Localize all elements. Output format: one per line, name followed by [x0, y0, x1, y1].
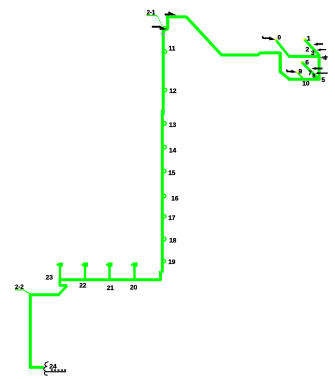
leader arrow for node 7 — [311, 67, 315, 70]
svg-text:12: 12 — [169, 88, 177, 95]
leader line for label 2-2 — [15, 289, 23, 291]
wire trunk lower offset — [159, 271, 162, 281]
wire left vertical down — [29, 293, 32, 368]
gray tick marks below junction — [161, 33, 163, 34]
svg-text:11: 11 — [169, 46, 176, 53]
node circle at trunk top junction — [163, 27, 166, 30]
wire loop bottom horizontal — [288, 78, 320, 81]
svg-text:8: 8 — [312, 73, 315, 79]
leader arrow for node 3 — [317, 48, 321, 51]
leader arrow for node 4 — [320, 56, 323, 59]
svg-text:14: 14 — [169, 147, 177, 154]
tiny annotation text under node 24 — [51, 369, 53, 371]
svg-text:2-1: 2-1 — [147, 10, 156, 16]
svg-text:15: 15 — [168, 170, 176, 177]
wire elbow vertical at x280 — [279, 52, 282, 72]
svg-text:0: 0 — [277, 35, 281, 42]
wire branch to node 0 — [276, 40, 289, 56]
svg-text:23: 23 — [46, 275, 54, 282]
wire top diagonal to main run — [186, 17, 221, 55]
wire bottom horizontal to node 24 — [29, 366, 44, 369]
wire trunk vertical upper — [166, 16, 169, 30]
flow arrow on trunk top — [168, 11, 176, 15]
node 12 circle — [163, 88, 166, 91]
svg-text:10: 10 — [302, 80, 310, 87]
leader arrow to node 9 — [286, 70, 288, 72]
svg-text:2: 2 — [306, 46, 310, 53]
leader arrow for node 8 — [315, 72, 319, 75]
leader line for label 2-1 — [146, 15, 157, 17]
node 1 point — [303, 38, 305, 40]
svg-text:2-2: 2-2 — [15, 285, 24, 291]
svg-text:6: 6 — [305, 59, 309, 66]
node 18 circle — [163, 237, 166, 240]
svg-text:19: 19 — [168, 259, 176, 266]
svg-text:5: 5 — [321, 77, 325, 84]
wire trunk vertical main — [161, 30, 165, 273]
node 0 point — [275, 39, 277, 41]
wire branch to node 9 — [297, 72, 303, 78]
svg-text:21: 21 — [107, 285, 115, 292]
wire trunk top horizontal — [166, 15, 187, 18]
svg-text:22: 22 — [79, 282, 87, 289]
wire branch to node 1 — [305, 40, 320, 56]
node 19 circle — [162, 260, 165, 263]
wire loop right vertical — [318, 56, 321, 81]
node 15 circle — [163, 169, 166, 172]
flow arrow at trunk junction — [152, 26, 161, 28]
node 14 circle — [163, 146, 166, 149]
svg-text:1: 1 — [307, 35, 311, 42]
hydrant stub node 20 — [133, 264, 135, 282]
svg-text:20: 20 — [130, 284, 138, 291]
wire trunk jog — [163, 29, 167, 31]
leader arrow to node 0 — [262, 36, 264, 38]
wire loop top horizontal — [288, 55, 320, 58]
node 6 point — [301, 61, 303, 63]
wire branch to node 6 — [302, 62, 318, 79]
node 9 point — [296, 71, 298, 73]
wire stub1 below main line — [58, 278, 61, 286]
hydrant stub node 23 — [59, 264, 61, 282]
node 16 circle — [163, 194, 166, 197]
wire stub1 foot right — [59, 284, 67, 287]
svg-text:18: 18 — [169, 238, 177, 245]
node 13 circle — [163, 122, 166, 125]
node 17 circle — [163, 215, 166, 218]
svg-text:3: 3 — [311, 50, 315, 57]
svg-text:13: 13 — [169, 122, 177, 129]
leader line under node 24 — [46, 371, 66, 372]
hydrant stub node 21 — [108, 264, 110, 282]
node 11 circle — [163, 50, 166, 53]
wire main horizontal run — [221, 53, 281, 55]
svg-text:9: 9 — [299, 69, 303, 76]
pipe break squiggle at node 24 — [44, 362, 49, 375]
svg-text:17: 17 — [168, 215, 176, 222]
wire lower-left horizontal — [31, 293, 60, 296]
leader arrow for node 2 — [313, 42, 317, 45]
svg-text:4: 4 — [323, 55, 327, 62]
wire elbow diagonal down to loop bottom — [280, 71, 290, 79]
wire foot diagonal down-left — [59, 286, 67, 294]
hydrant stub node 22 — [84, 264, 86, 282]
svg-text:16: 16 — [171, 195, 179, 202]
wire bottom-left horizontal main — [59, 278, 161, 281]
